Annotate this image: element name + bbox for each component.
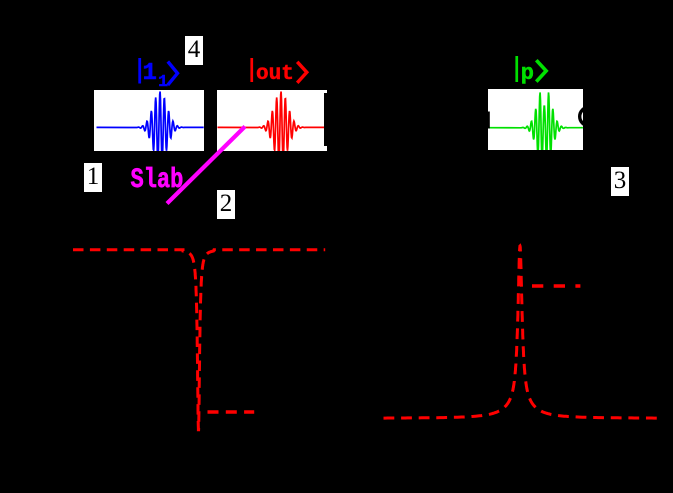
svg-text:Slab: Slab	[131, 164, 184, 196]
svg-text:1: 1	[143, 60, 157, 87]
svg-text:1: 1	[158, 73, 168, 92]
svg-text:p: p	[521, 61, 534, 86]
svg-text:out: out	[256, 63, 294, 86]
